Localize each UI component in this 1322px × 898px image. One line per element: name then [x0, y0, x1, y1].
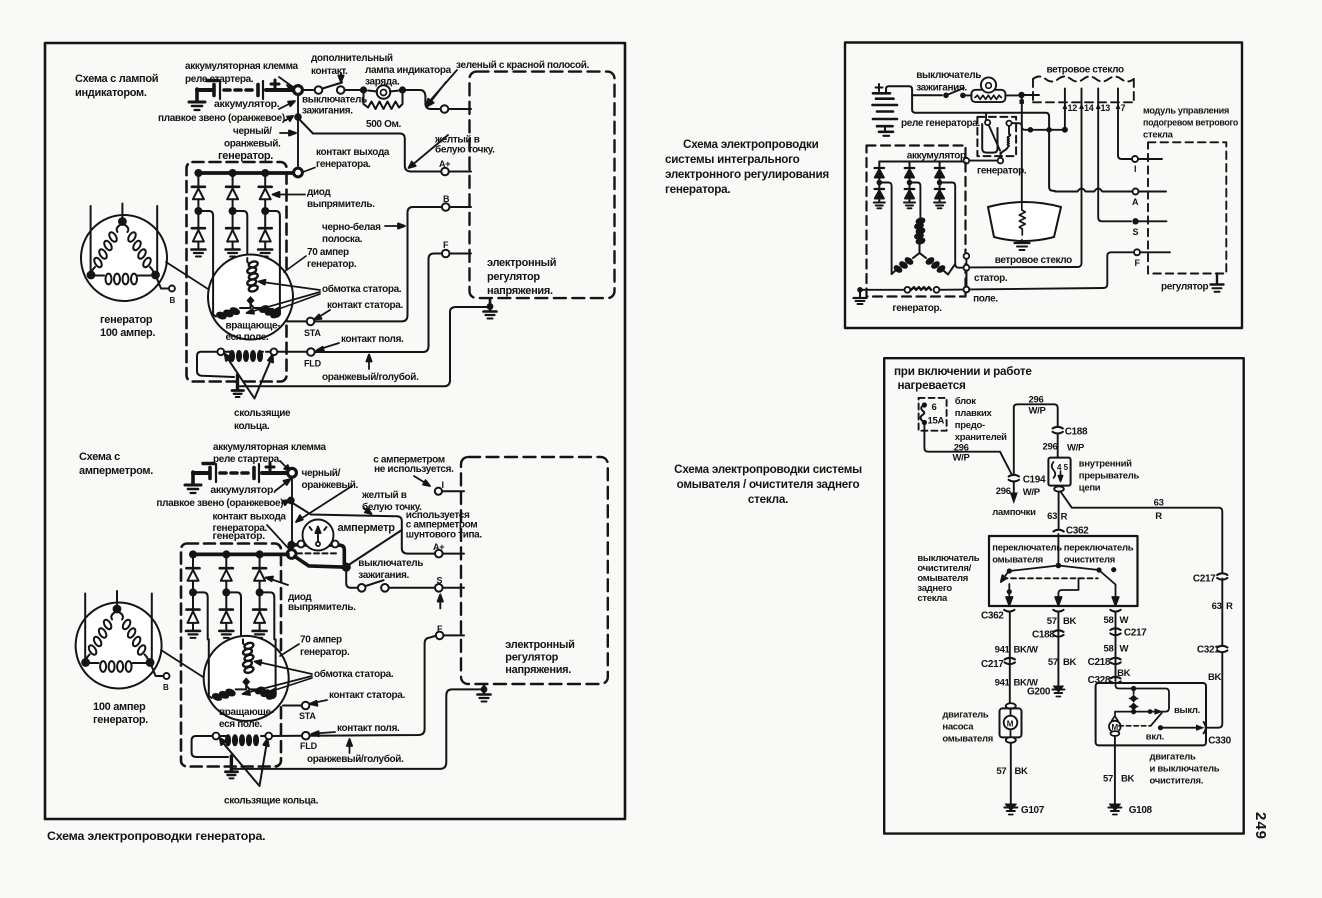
svg-text:Схема электропроводки генерато: Схема электропроводки генератора. [47, 829, 265, 843]
rectifier diode D1a lower-scheme (upper) [187, 556, 200, 589]
washer output [1007, 589, 1012, 594]
svg-text:реле генератора.: реле генератора. [901, 118, 981, 129]
callout arrow [409, 82, 449, 168]
svg-text:лампа индикатора: лампа индикатора [365, 65, 452, 76]
delta left coil B [86, 613, 115, 662]
svg-text:вращающе-: вращающе- [226, 321, 281, 332]
ground (diode 1) [191, 250, 205, 257]
connector C328 [1110, 677, 1120, 683]
terminal FLD (B) [302, 732, 310, 740]
svg-text:C328: C328 [1088, 675, 1111, 686]
svg-text:контакт.: контакт. [311, 66, 348, 77]
rectifier diode C-D3a [935, 162, 945, 181]
svg-text:аккумуляторная клемма: аккумуляторная клемма [213, 442, 327, 453]
node: lamp output junction [1018, 92, 1024, 98]
arrow to diode 3 [273, 192, 306, 197]
svg-text:S: S [1133, 227, 1139, 237]
svg-text:черный/: черный/ [302, 468, 341, 479]
node: ammeter feed dot [287, 541, 295, 549]
svg-text:W/P: W/P [1029, 406, 1047, 417]
wire: field left to ground B [192, 736, 228, 757]
svg-text:регулятор: регулятор [1161, 282, 1209, 293]
svg-text:генератор.: генератор. [977, 166, 1027, 177]
svg-text:прерыватель: прерыватель [1079, 471, 1140, 482]
svg-text:Схема с лампой: Схема с лампой [75, 73, 158, 85]
bottom right outer frame [884, 358, 1243, 833]
connector C194 [1009, 475, 1019, 482]
svg-text:63: 63 [1154, 498, 1164, 509]
svg-text:70 ампер: 70 ампер [307, 247, 349, 258]
svg-text:R: R [1061, 512, 1068, 523]
node: поле junction on box edge [964, 287, 970, 293]
ground (battery A) [195, 89, 199, 101]
arrow [275, 479, 291, 491]
wire: 296 top branch [1014, 404, 1058, 474]
svg-text:переключатель: переключатель [1064, 543, 1134, 554]
node: phase junction 2 [229, 207, 237, 215]
svg-text:зажигания.: зажигания. [358, 570, 409, 581]
wire: stator contact from rotor to STA [287, 320, 307, 322]
internal feed [1116, 683, 1170, 712]
rectifier diode D2b lower-scheme (lower) [220, 595, 233, 630]
wire: phase branch 1 lower-scheme [196, 592, 208, 639]
svg-text:поле.: поле. [973, 294, 998, 305]
wire: phase branch 2 [236, 211, 248, 258]
svg-text:системы интегрального: системы интегрального [665, 153, 800, 166]
svg-text:зажигания.: зажигания. [302, 106, 353, 117]
node: phase junction 1 [194, 207, 202, 215]
ground (C diode 1) [874, 203, 885, 209]
wiper motor to G108 [1114, 736, 1116, 804]
wire: yellow/white-dot wire to A+ [300, 120, 441, 172]
field coil marks [911, 287, 931, 290]
arrow to diode [266, 577, 288, 586]
rectifier diode D3b lower-scheme (lower) [253, 595, 266, 630]
resistor 500 Ohm [364, 92, 403, 109]
svg-text:C217: C217 [981, 659, 1004, 670]
phase drop wires C [882, 183, 892, 275]
callout arrow from аккумулятор to junction [279, 101, 295, 109]
svg-text:B: B [170, 296, 176, 305]
relay coil [1001, 126, 1011, 154]
svg-text:контакт выхода: контакт выхода [316, 147, 390, 158]
wire: поле to module F [969, 288, 1103, 289]
stator winding coil B [242, 642, 254, 674]
node: phase junction 1 lower-scheme [189, 588, 197, 596]
svg-text:двигатель: двигатель [1150, 752, 1197, 763]
wire: junction down to relay/windshield element [1021, 98, 1023, 203]
svg-text:индикатором.: индикатором. [75, 87, 147, 99]
svg-text:электронный: электронный [487, 257, 556, 269]
terminal S (module) [1132, 218, 1138, 224]
svg-text:двигатель: двигатель [942, 710, 989, 721]
svg-text:C188: C188 [1065, 427, 1088, 438]
svg-text:контакт статора.: контакт статора. [327, 300, 403, 311]
svg-text:G107: G107 [1021, 805, 1045, 816]
terminal circle (top, green wire) [441, 105, 449, 113]
svg-text:контакт выхода: контакт выхода [213, 512, 287, 523]
svg-text:оранжевый.: оранжевый. [302, 480, 359, 491]
wire: C330 up the right side [1207, 653, 1222, 728]
ground (regulator B) [478, 684, 491, 702]
svg-text:внутренний: внутренний [1079, 459, 1132, 470]
svg-text:статор.: статор. [974, 273, 1008, 284]
svg-text:BK: BK [1015, 766, 1029, 777]
svg-text:12: 12 [1068, 103, 1078, 113]
svg-text:7: 7 [1121, 103, 1126, 113]
svg-text:FLD: FLD [304, 359, 322, 369]
node: generator output contact B [287, 550, 296, 559]
svg-text:4 5: 4 5 [1057, 463, 1069, 472]
lead arrows and numbers [1063, 103, 1121, 109]
relay armature [982, 124, 997, 153]
ground (diode 2) [226, 250, 240, 257]
ground G107 [1004, 804, 1017, 815]
svg-text:выключатель: выключатель [916, 70, 981, 81]
wire: статор to lead 14 [969, 266, 1077, 268]
svg-text:генератор.: генератор. [307, 259, 357, 270]
wire: FLD stub B [272, 735, 301, 737]
svg-text:еся поле.: еся поле. [226, 332, 269, 343]
wire: junction down to generator output [297, 95, 299, 167]
diode pair [1133, 691, 1135, 694]
indicator lamp [377, 85, 391, 99]
svg-text:941: 941 [995, 678, 1011, 689]
svg-text:омывателя: омывателя [942, 734, 993, 745]
connector (58 W branch) [1110, 610, 1120, 612]
wire: STA to B vertical [315, 207, 442, 321]
rectifier diode C-D1a [875, 162, 885, 181]
svg-text:при включении и работе: при включении и работе [894, 365, 1032, 378]
svg-text:генератора.: генератора. [316, 159, 371, 170]
charge lamp with shunt resistor (C) [971, 90, 1005, 102]
connector C217 (941) [1005, 658, 1015, 664]
svg-text:63: 63 [1212, 601, 1222, 612]
svg-text:аккумулятор.: аккумулятор. [210, 484, 276, 496]
magnifier link line B [161, 650, 203, 677]
wiper switch blade [1100, 571, 1116, 585]
wire: phase branch 3 [268, 211, 280, 258]
electronic voltage regulator box B [461, 457, 608, 684]
svg-text:реле стартера.: реле стартера. [213, 454, 282, 465]
ground (heater) [1015, 240, 1030, 250]
heater resistor [1019, 203, 1025, 235]
svg-text:очистителя.: очистителя. [1150, 776, 1204, 787]
svg-text:W/P: W/P [1023, 487, 1041, 498]
node: phase dot C3 [937, 180, 943, 186]
svg-text:омывателя: омывателя [992, 555, 1043, 566]
magnifier link line to rotor circle [166, 262, 208, 289]
B terminal stub [150, 663, 163, 677]
callout arrow to battery junction [279, 77, 293, 90]
svg-text:6: 6 [932, 402, 937, 413]
connector C217 (right 63R) [1217, 573, 1227, 579]
svg-text:дополнительный: дополнительный [311, 53, 393, 64]
wire: lamp node to regulator terminal (green/red stripe) [406, 90, 440, 109]
svg-text:и выключатель: и выключатель [1150, 764, 1220, 775]
svg-text:63: 63 [1047, 511, 1057, 522]
arrow to I terminal [414, 476, 430, 486]
svg-text:C362: C362 [981, 611, 1004, 622]
rectifier diode C-D1b [875, 185, 885, 202]
relay NC wire to 12 [1012, 123, 1063, 130]
svg-text:A: A [1132, 197, 1139, 207]
svg-text:W: W [1120, 615, 1129, 626]
washer motor wire 941 BK/W [1009, 613, 1011, 704]
svg-text:296: 296 [1029, 395, 1044, 406]
wire motor to G107 [1010, 743, 1012, 804]
ground (generator C left) [854, 287, 867, 304]
ground (battery B) [185, 472, 201, 493]
svg-text:BK: BK [1063, 657, 1077, 668]
node: wire12 end dot [1062, 127, 1068, 133]
ignition switch C [943, 93, 949, 99]
wire: phase branch 1 [201, 211, 213, 258]
ground (C diode 3) [934, 203, 945, 209]
svg-text:стекла: стекла [1143, 130, 1174, 141]
terminal A (module) [1133, 189, 1139, 195]
wire: lamp to junction [1006, 94, 1018, 96]
shunt-type wire to A+ vertical [349, 530, 402, 565]
callout lines to windings [247, 280, 321, 314]
svg-text:STA: STA [304, 328, 321, 338]
rectifier diode D1b lower-scheme (lower) [187, 595, 200, 630]
ground return wire B [233, 689, 481, 769]
thick shunt bottom wire [295, 557, 343, 568]
terminal STA [307, 318, 315, 326]
svg-text:70 ампер: 70 ампер [300, 635, 342, 646]
fuse elements [921, 405, 925, 423]
relay output to generator [1000, 153, 1002, 157]
arrow to B wire [385, 223, 405, 228]
callout to output circle [300, 168, 316, 173]
node: phase junction 2 lower-scheme [222, 588, 230, 596]
node: battery junction B [288, 468, 297, 477]
wire: FLD contact [277, 351, 306, 353]
svg-text:F: F [443, 240, 449, 250]
wiper motor M [1114, 712, 1116, 716]
thick output bus B [193, 553, 288, 557]
switch blade (wiper box) [1119, 725, 1151, 727]
callout arrow to fuse-link dot [284, 116, 293, 121]
svg-text:цепи: цепи [1079, 483, 1101, 494]
svg-text:омывателя / очистителя заднего: омывателя / очистителя заднего [677, 478, 860, 491]
svg-text:нагревается: нагревается [898, 379, 966, 392]
svg-text:контакт поля.: контакт поля. [341, 334, 404, 345]
svg-text:кольца.: кольца. [234, 421, 270, 432]
arrow to FLD [317, 343, 340, 352]
rectifier diode D2a (upper) [226, 175, 239, 208]
svg-text:оранжевый.: оранжевый. [224, 139, 281, 150]
svg-text:выпрямитель.: выпрямитель. [288, 602, 356, 613]
wire: A feed with bumps [1055, 189, 1132, 192]
stator winding (vertical coil) [247, 260, 259, 292]
winding right arm B [246, 684, 276, 699]
connector C218 [1110, 658, 1120, 664]
svg-text:STA: STA [299, 711, 316, 721]
svg-text:C362: C362 [1066, 526, 1089, 537]
delta bottom coil B [89, 661, 147, 672]
wire segments right column [1221, 579, 1223, 647]
wire: junction B down to bus [291, 477, 293, 549]
field winding (slip rings) A [217, 348, 224, 355]
node: phase dot C2 [907, 180, 913, 186]
rectifier diode D3a (upper) [259, 175, 272, 208]
svg-text:M: M [1007, 720, 1014, 729]
svg-text:249: 249 [1252, 812, 1269, 840]
svg-text:модуль управления: модуль управления [1143, 106, 1229, 117]
wire: battery+ up and right [886, 86, 1055, 191]
svg-text:насоса: насоса [942, 722, 974, 733]
connector C188 (top) [1053, 427, 1063, 434]
svg-text:ветровое стекло: ветровое стекло [1047, 65, 1124, 76]
svg-text:подогревом ветрового: подогревом ветрового [1143, 118, 1238, 129]
svg-text:B: B [163, 683, 169, 692]
svg-text:черно-белая: черно-белая [322, 221, 381, 233]
svg-text:плавкое звено (оранжевое).: плавкое звено (оранжевое). [158, 113, 288, 124]
svg-text:R: R [1226, 601, 1233, 612]
stator leads [90, 206, 92, 272]
svg-text:скользящие: скользящие [234, 408, 291, 419]
stator center coil C [915, 218, 925, 253]
stator arms C [892, 253, 956, 275]
svg-text:100 ампер: 100 ампер [93, 701, 146, 713]
svg-text:BK: BK [1121, 774, 1135, 785]
svg-text:очистителя: очистителя [1064, 555, 1115, 566]
svg-text:W: W [1120, 644, 1129, 655]
arrow to vertical wire [280, 130, 296, 135]
bus (C) [879, 161, 963, 163]
washer switch blade [1001, 572, 1008, 582]
wire + arrow to lamps [1013, 482, 1015, 492]
wire: yellow/white-dot wire B to A+ [293, 503, 435, 554]
svg-text:BK: BK [1063, 616, 1077, 627]
arrow to junction [280, 461, 291, 472]
rectifier diode D1a (upper) [192, 175, 205, 208]
thick shunt top wire [291, 545, 344, 563]
svg-text:оранжевый/голубой.: оранжевый/голубой. [307, 753, 404, 765]
slip ring pointer V (B) [220, 738, 269, 786]
svg-text:296: 296 [996, 486, 1011, 497]
svg-text:13: 13 [1101, 103, 1111, 113]
arrow down to wire [364, 508, 372, 514]
resistor inside [975, 95, 1001, 99]
svg-text:W/P: W/P [1067, 443, 1085, 454]
delta left side coil [91, 225, 120, 274]
battery B [193, 463, 288, 482]
svg-text:58: 58 [1104, 644, 1114, 655]
relay top pin wire [985, 113, 987, 121]
svg-text:регулятор: регулятор [505, 652, 558, 664]
bus nodes [194, 169, 202, 177]
svg-text:C194: C194 [1023, 475, 1046, 486]
wire: FLD to F vertical B [310, 636, 435, 736]
connector (57 BK branch) [1053, 610, 1063, 612]
svg-text:плавких: плавких [955, 408, 993, 419]
svg-text:диод: диод [307, 187, 331, 198]
rectifier diode D1b (lower) [192, 214, 205, 249]
winding left arm B [209, 684, 246, 701]
svg-text:скользящие кольца.: скользящие кольца. [224, 796, 319, 807]
battery C plates [873, 93, 898, 136]
svg-text:941: 941 [995, 645, 1011, 656]
svg-text:предо-: предо- [955, 420, 985, 431]
svg-text:амперметр: амперметр [338, 522, 396, 534]
svg-text:выпрямитель.: выпрямитель. [307, 199, 375, 210]
arrow up to FLD wire [366, 355, 371, 370]
svg-text:57: 57 [1103, 774, 1113, 785]
svg-text:плавкое звено (оранжевое).: плавкое звено (оранжевое). [156, 498, 286, 509]
winding right arm [251, 303, 281, 318]
svg-text:напряжения.: напряжения. [505, 664, 571, 676]
svg-text:15A: 15A [928, 416, 945, 427]
phase wires into rotor B [208, 639, 210, 684]
terminal STA (B) [302, 702, 310, 710]
svg-text:генератора.: генератора. [665, 183, 730, 196]
B terminal of 100A generator [156, 275, 169, 289]
node: generator output contact [294, 168, 303, 177]
wire: FLD to F vertical [315, 254, 441, 353]
delta right side coil [125, 225, 154, 274]
run contact bar [1116, 711, 1149, 713]
svg-text:выключатель: выключатель [302, 95, 367, 106]
rectifier diode D2b (lower) [226, 214, 239, 249]
svg-text:F: F [1135, 258, 1141, 268]
terminal I (module) [1132, 156, 1138, 162]
callout to bus circle [267, 525, 289, 549]
svg-text:блок: блок [955, 396, 976, 407]
arrow to STA [314, 310, 330, 320]
svg-text:генератор.: генератор. [892, 303, 942, 314]
svg-text:C218: C218 [1088, 657, 1111, 668]
slip ring pointer V [225, 354, 273, 399]
winding left arm [213, 303, 250, 320]
svg-text:стекла: стекла [917, 593, 948, 604]
svg-text:C217: C217 [1193, 574, 1216, 585]
svg-text:электронного регулирования: электронного регулирования [665, 168, 829, 181]
callout 70A to circle [284, 256, 306, 272]
svg-text:амперметром.: амперметром. [79, 465, 153, 477]
wire: switch to S [389, 587, 434, 589]
rectifier diode C-D3b [935, 185, 945, 202]
top right outer frame [845, 43, 1242, 329]
svg-text:желтый в: желтый в [361, 490, 407, 501]
node: phase junction 3 [261, 207, 269, 215]
breaker bottom connector [1054, 486, 1064, 491]
mechanical link dashed [1003, 577, 1098, 579]
ground (diode 2 lower-scheme) [219, 631, 233, 638]
connector C362 bottom [1004, 610, 1014, 612]
svg-text:контакт поля.: контакт поля. [337, 723, 400, 734]
connector C362 (top) [1053, 530, 1063, 532]
terminal F (module) [1134, 249, 1140, 255]
svg-text:стекла.: стекла. [748, 493, 788, 506]
wire: fuse to C194 [924, 425, 1011, 474]
rectifier diode D3a lower-scheme (upper) [253, 556, 266, 589]
stator output connector circle on box edge [964, 253, 970, 259]
wire: junction to ignition switch [303, 89, 314, 91]
phase wires into rotor [212, 258, 214, 303]
battery A [197, 80, 294, 99]
svg-text:аккумулятор.: аккумулятор. [907, 151, 969, 162]
svg-text:генератор: генератор [100, 314, 153, 326]
svg-text:лампочки: лампочки [992, 507, 1036, 518]
svg-text:C217: C217 [1124, 628, 1147, 639]
svg-text:500 Ом.: 500 Ом. [366, 119, 402, 130]
svg-text:14: 14 [1084, 103, 1094, 113]
svg-text:аккумуляторная клемма: аккумуляторная клемма [185, 61, 299, 72]
svg-text:напряжения.: напряжения. [487, 285, 553, 297]
